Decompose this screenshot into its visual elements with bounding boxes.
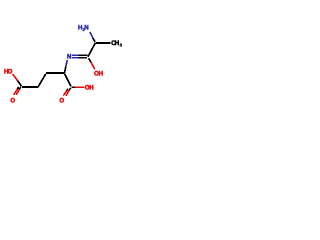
svg-text:O: O xyxy=(8,68,13,75)
svg-text:N: N xyxy=(67,54,71,61)
wire bond N=C6 line2 black part xyxy=(79,57,88,59)
wire bond C7-NH2 blue part xyxy=(90,32,93,38)
svg-text:H: H xyxy=(89,85,93,92)
wire bond C1=O line1 red part xyxy=(16,89,19,95)
wire bond C1=O line1 black part xyxy=(19,87,21,90)
svg-text:O: O xyxy=(59,97,64,104)
wire bond C6-C7 xyxy=(88,43,96,57)
wire bond C3-C4 xyxy=(46,72,65,74)
wire bond HO-C1 black part xyxy=(18,81,22,87)
wire bond HO-C1 red part xyxy=(13,74,18,80)
wire bond C8=O line1 red part xyxy=(66,90,69,96)
wire bond C4-C8 xyxy=(65,74,71,87)
wire bond N=C6 line1 black part xyxy=(79,54,88,56)
svg-text:O: O xyxy=(10,97,15,104)
svg-text:N: N xyxy=(84,25,88,32)
svg-text:H: H xyxy=(99,71,103,78)
wire bond C6-OH red part xyxy=(91,62,95,69)
wire bond C6-OH black part xyxy=(89,58,92,62)
wire bond N=C6 line2 blue part xyxy=(72,57,79,59)
wire bond C4-N black part xyxy=(65,66,66,73)
wire bond C7-CH3 xyxy=(96,42,110,44)
wire bond C8-OH red part xyxy=(75,86,84,88)
wire bond C8-OH black part xyxy=(72,86,75,88)
wire bond C2-C3 xyxy=(38,74,46,87)
wire bond C4-N blue part xyxy=(66,60,67,66)
svg-text:3: 3 xyxy=(120,42,123,47)
wire bond C1=O line2 black part xyxy=(17,87,18,90)
wire bond C8=O line2 black part xyxy=(67,89,68,91)
wire bond N=C6 line1 blue part xyxy=(72,54,79,56)
wire bond C8=O line2 red part xyxy=(63,90,67,95)
wire bond C1=O line2 red part xyxy=(14,89,17,94)
wire bond C7-NH2 black part xyxy=(93,38,95,42)
wire bond C1-C2 xyxy=(22,86,38,88)
wire bond C8=O line1 black part xyxy=(69,88,70,90)
